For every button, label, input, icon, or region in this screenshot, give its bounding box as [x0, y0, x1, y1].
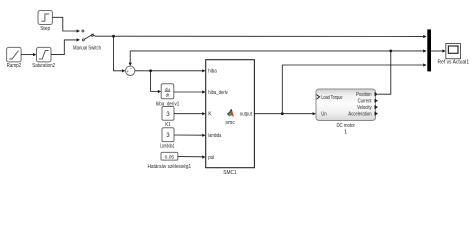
- constant block Lambda1 value 3: [162, 128, 174, 142]
- svg-text:hiba_deriv: hiba_deriv: [208, 90, 228, 96]
- wire Manual Switch output to Mux input 1 (reference): [93, 35, 426, 38]
- svg-text:K1: K1: [165, 122, 171, 128]
- svg-text:Step: Step: [40, 26, 50, 32]
- svg-text:−: −: [130, 66, 133, 71]
- label DC motor 1: [336, 123, 355, 135]
- constant block Hatarsav szelesseg1 value 0.05: [161, 152, 178, 160]
- svg-text:psi: psi: [208, 155, 214, 161]
- mux block Mux: [427, 29, 431, 71]
- DC motor subsystem block DC motor 1: [316, 89, 376, 121]
- svg-text:3: 3: [166, 132, 170, 139]
- wire Step to Manual Switch upper input: [52, 17, 80, 32]
- svg-text:lambda: lambda: [208, 133, 221, 139]
- svg-text:Ramp2: Ramp2: [7, 63, 22, 69]
- svg-text:Manual Switch: Manual Switch: [73, 45, 101, 51]
- wire K1 to SMC1 K input: [174, 112, 206, 115]
- constant block K1 value 3: [162, 107, 174, 121]
- output port chevron Velocity: [375, 105, 378, 109]
- svg-text:smc: smc: [225, 120, 235, 126]
- svg-text:Load Torque: Load Torque: [321, 95, 342, 101]
- wire branch down to derivative hiba_deriv1 input: [151, 71, 162, 93]
- svg-text:output: output: [240, 112, 253, 118]
- wire Saturation2 to Manual Switch lower input: [51, 38, 80, 54]
- MATLAB function subsystem block SMC1: [206, 60, 255, 168]
- wire Position output feedback to Mux input 2 and Sum: [130, 49, 426, 94]
- wire Lambda1 to SMC1 lambda input: [174, 134, 206, 137]
- junction node on reference wire: [112, 35, 115, 38]
- MATLAB logo icon inside SMC1: [227, 109, 234, 117]
- svg-text:SMC1: SMC1: [223, 170, 237, 176]
- wire control branch up to Mux input 3: [282, 63, 426, 113]
- svg-text:Current: Current: [358, 99, 372, 105]
- junction node on feedback wire: [389, 50, 392, 53]
- output port chevron Position: [375, 92, 378, 96]
- svg-text:Velocity: Velocity: [357, 105, 372, 111]
- svg-text:Acceleration: Acceleration: [348, 112, 371, 118]
- ramp source block Ramp2: [7, 47, 22, 62]
- svg-text:1: 1: [344, 130, 347, 136]
- svg-text:DC motor: DC motor: [336, 123, 355, 129]
- step source block Step: [38, 11, 52, 25]
- svg-text:0.05: 0.05: [165, 154, 175, 160]
- svg-text:Lambda1: Lambda1: [160, 144, 175, 150]
- wire Sum output to SMC1 hiba input: [135, 69, 206, 72]
- wire Mux output to Scope: [431, 49, 446, 52]
- wire Ramp2 to Saturation2: [21, 53, 36, 56]
- wire hiba_deriv1 to SMC1 hiba_deriv input: [174, 90, 206, 93]
- output port chevron Current: [375, 99, 378, 103]
- junction node on Sum output wire: [149, 69, 152, 72]
- svg-text:3: 3: [166, 111, 170, 118]
- svg-text:Position: Position: [356, 92, 372, 98]
- output port chevron Acceleration: [375, 111, 378, 115]
- svg-text:Un: Un: [321, 112, 327, 118]
- scope block Ref vs Actual1: [446, 44, 461, 59]
- derivative block hiba_deriv1: [161, 84, 174, 99]
- wire feedback into Sum top input (arrow): [129, 63, 132, 66]
- manual switch block Manual Switch: [82, 30, 94, 41]
- wire SMC1 output to DC motor Un input: [254, 112, 316, 115]
- svg-text:hiba: hiba: [208, 69, 217, 75]
- saturation block Saturation2: [37, 47, 52, 62]
- svg-text:du: du: [165, 87, 170, 92]
- input port chevron Load Torque: [317, 95, 320, 100]
- wire Hatarsav szelesseg1 to SMC1 psi input: [178, 155, 206, 158]
- svg-text:Ref vs Actual1: Ref vs Actual1: [438, 60, 470, 66]
- wire reference branch down to Sum left input: [114, 36, 126, 72]
- svg-text:Határsáv szélesség1: Határsáv szélesség1: [148, 164, 192, 170]
- svg-text:Saturation2: Saturation2: [32, 63, 55, 69]
- sum junction block Sum: [126, 66, 135, 76]
- junction node on SMC1 output wire: [281, 112, 284, 115]
